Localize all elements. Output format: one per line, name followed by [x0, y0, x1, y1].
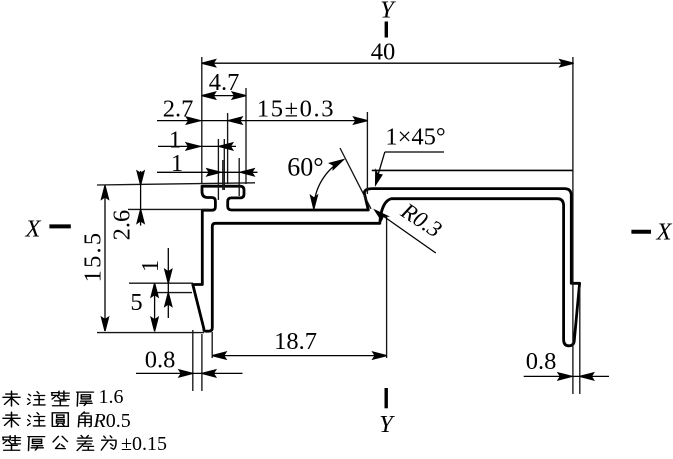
- svg-text:1×45°: 1×45°: [385, 124, 445, 151]
- svg-text:40: 40: [371, 39, 396, 66]
- svg-text:4.7: 4.7: [209, 69, 240, 96]
- svg-text:15.5: 15.5: [80, 231, 107, 283]
- svg-text:2.6: 2.6: [109, 210, 136, 241]
- svg-text:15±0.3: 15±0.3: [257, 96, 335, 123]
- svg-text:Y: Y: [380, 0, 396, 24]
- svg-text:18.7: 18.7: [274, 328, 317, 355]
- svg-text:Y: Y: [379, 411, 395, 438]
- svg-text:R0.5: R0.5: [93, 410, 131, 432]
- svg-text:2.7: 2.7: [163, 96, 194, 123]
- svg-text:±0.15: ±0.15: [121, 433, 167, 455]
- svg-text:0.8: 0.8: [526, 348, 557, 375]
- svg-text:X: X: [25, 216, 42, 243]
- svg-text:60°: 60°: [287, 153, 323, 182]
- svg-text:X: X: [656, 219, 673, 246]
- svg-text:1: 1: [137, 260, 164, 272]
- svg-text:1: 1: [171, 150, 183, 177]
- svg-text:1.6: 1.6: [99, 386, 124, 408]
- svg-text:0.8: 0.8: [145, 347, 176, 374]
- svg-text:5: 5: [130, 289, 142, 316]
